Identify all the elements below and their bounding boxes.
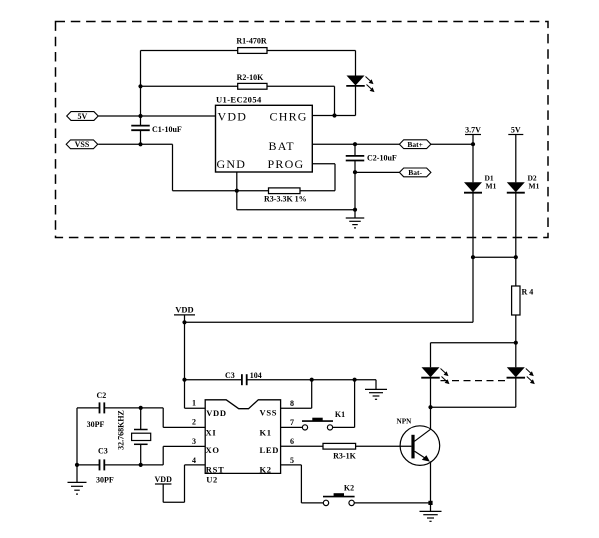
junction CHRG/R2: [332, 113, 336, 117]
wire GND return to ground: [236, 191, 238, 210]
svg-text:1: 1: [192, 399, 196, 408]
capacitor C2 30PF: [77, 407, 100, 409]
dashed enclosure box (charger section): [56, 22, 549, 238]
wire base: [356, 445, 412, 447]
junction ground line: [353, 208, 357, 212]
svg-text:R3-3.3K 1%: R3-3.3K 1%: [264, 195, 307, 204]
svg-text:Bat-: Bat-: [408, 168, 422, 177]
wire collector: [430, 407, 432, 429]
pin 2 stub: [163, 426, 205, 428]
crystal oscillator section left rail: [76, 408, 78, 465]
svg-text:3.7V: 3.7V: [465, 125, 481, 134]
svg-text:LED: LED: [260, 445, 280, 455]
svg-text:32.768KHZ: 32.768KHZ: [117, 410, 126, 450]
junction crystal bottom: [139, 463, 143, 467]
crystal Y1 32.768KHZ: [140, 408, 142, 430]
switch K2 with riser: [300, 465, 302, 503]
junction D1 bottom: [471, 255, 475, 259]
svg-text:U2: U2: [206, 474, 218, 484]
resistor R2 (R2-10K): [141, 85, 238, 87]
wire 5V rail to U1 VDD: [98, 115, 215, 117]
svg-text:C2-10uF: C2-10uF: [367, 153, 397, 162]
svg-text:M1: M1: [529, 181, 540, 190]
LED charge indicator: [347, 76, 365, 86]
LED indicator right: [515, 343, 517, 368]
wire CHRG pin to LED: [312, 115, 355, 117]
svg-text:VDD: VDD: [175, 305, 193, 315]
svg-text:R 4: R 4: [522, 288, 534, 297]
emitter with arrow: [415, 451, 428, 460]
power flag VDD for RST: [155, 483, 172, 485]
connector Bat-: [399, 168, 431, 177]
junction K1 riser: [353, 378, 357, 382]
svg-text:K2: K2: [344, 484, 354, 493]
svg-text:2: 2: [192, 418, 196, 427]
pin 3 stub: [163, 445, 205, 447]
svg-text:3: 3: [192, 437, 196, 446]
transistor Q1 NPN: [400, 426, 440, 466]
wire U1 BAT pin to battery: [312, 143, 473, 145]
svg-text:Bat+: Bat+: [407, 140, 423, 149]
svg-text:XO: XO: [206, 445, 220, 455]
junction 5V rail: [138, 114, 142, 118]
wire U1 GND pin down: [236, 172, 238, 191]
junction BAT at 3.7V rail: [471, 142, 475, 146]
svg-text:4: 4: [192, 456, 196, 465]
svg-text:M1: M1: [486, 181, 497, 190]
wire R1 to LED anode: [355, 51, 357, 76]
wire U1 PROG pin: [312, 163, 335, 165]
svg-text:NPN: NPN: [397, 417, 413, 425]
wire LED pair top link: [431, 342, 516, 344]
wire XO link: [141, 464, 164, 466]
svg-text:8: 8: [290, 399, 294, 408]
svg-text:6: 6: [290, 437, 294, 446]
junction GND pin / VSS line: [235, 189, 239, 193]
wire K1 to VSS line: [333, 426, 355, 428]
junction C1 bottom: [138, 142, 142, 146]
pin 5 stub: [281, 464, 302, 466]
svg-text:VDD: VDD: [218, 110, 248, 124]
svg-text:30PF: 30PF: [87, 420, 105, 429]
capacitor C3 30PF: [77, 464, 100, 466]
svg-text:C2: C2: [97, 391, 107, 400]
pin 7 stub: [281, 426, 303, 428]
capacitor C1 (C1-10uF): [140, 116, 142, 126]
connector Bat+: [399, 140, 431, 149]
junction VDD at C3 line: [182, 378, 186, 382]
svg-text:RST: RST: [206, 465, 225, 475]
wire K2 to emitter junction: [354, 502, 430, 504]
svg-text:30PF: 30PF: [96, 476, 114, 485]
svg-text:PROG: PROG: [268, 157, 305, 171]
svg-text:VSS: VSS: [260, 408, 278, 418]
power flag VDD main: [174, 314, 195, 316]
wire RST pull-up: [162, 484, 164, 502]
svg-text:5: 5: [290, 456, 294, 465]
wire R2 down to CHRG: [334, 86, 336, 115]
switch K1: [302, 425, 307, 430]
wire LED pair bottom link: [431, 406, 516, 408]
junction LED bottom: [428, 405, 432, 409]
junction R2 tap: [138, 84, 142, 88]
connector 5V input: [67, 112, 99, 121]
svg-text:C1-10uF: C1-10uF: [152, 125, 182, 134]
svg-text:K2: K2: [260, 465, 272, 475]
svg-text:VDD: VDD: [155, 475, 173, 484]
power flag 3.7V: [465, 134, 481, 136]
svg-text:R3-1K: R3-1K: [333, 451, 356, 460]
junction crystal top: [139, 406, 143, 410]
wire pin8 riser: [311, 380, 313, 409]
svg-text:104: 104: [250, 371, 262, 380]
svg-text:R1-470R: R1-470R: [236, 37, 266, 46]
power flag 5V (battery side): [508, 134, 523, 136]
wire Bat- link: [355, 171, 399, 173]
svg-text:K1: K1: [335, 410, 345, 419]
svg-text:VSS: VSS: [75, 140, 90, 149]
junction VDD rail: [182, 320, 186, 324]
capacitor C2 (C2-10uF): [354, 144, 356, 156]
svg-text:C3: C3: [98, 446, 108, 455]
wire 5V feed vertical to R1/R2: [140, 51, 142, 117]
svg-text:5V: 5V: [78, 112, 88, 121]
ground below transistor: [430, 503, 432, 512]
wire C3 line to ground: [312, 379, 376, 381]
wire VSS return path: [98, 143, 172, 145]
capacitor C3 104 decoupling: [185, 379, 242, 381]
resistor R1 (R1-470R): [141, 50, 238, 52]
connector VSS input: [66, 140, 98, 149]
ground charger section: [354, 210, 356, 218]
resistor R3-1K base resistor: [281, 445, 323, 447]
svg-text:BAT: BAT: [269, 139, 295, 153]
svg-text:7: 7: [290, 418, 294, 427]
pin 1 stub: [185, 407, 206, 409]
svg-text:U1-EC2054: U1-EC2054: [216, 95, 262, 105]
svg-text:R2-10K: R2-10K: [237, 73, 264, 82]
svg-text:5V: 5V: [511, 125, 521, 134]
junction C2 top: [353, 142, 357, 146]
svg-text:K1: K1: [260, 428, 272, 438]
junction emitter/ground: [428, 501, 432, 505]
IC U2 controller: [205, 400, 280, 474]
op-amp U1 charger IC EC2054: [216, 105, 313, 172]
junction Bat- tap: [353, 170, 357, 174]
svg-text:GND: GND: [217, 157, 247, 171]
resistor R4: [515, 257, 517, 286]
svg-text:VDD: VDD: [206, 408, 227, 418]
junction left rail bottom: [75, 463, 79, 467]
svg-text:C3: C3: [225, 371, 235, 380]
wire D1-D2 link: [473, 256, 516, 258]
wire XI link: [141, 407, 164, 409]
ground crystal section: [76, 465, 78, 483]
optocoupling dashed link: [441, 380, 507, 382]
LED indicator left: [422, 367, 440, 377]
junction R4 bottom: [514, 341, 518, 345]
junction pin8 riser: [310, 378, 314, 382]
junction D2 bottom: [514, 255, 518, 259]
pin 4 stub: [185, 464, 206, 466]
resistor R3 (R3-3.3K 1%): [269, 188, 301, 194]
svg-text:XI: XI: [206, 428, 217, 438]
diode D1 M1: [472, 144, 474, 182]
ground near U2 VSS: [375, 380, 377, 390]
diode D2 M1: [507, 182, 525, 192]
wire battery rail down to VDD net: [472, 257, 474, 322]
svg-text:CHRG: CHRG: [270, 110, 308, 124]
pin 8 stub: [281, 407, 312, 409]
wire VDD vertical to U2 pin1: [184, 322, 186, 408]
wire C2 bottom to ground line: [354, 172, 356, 210]
